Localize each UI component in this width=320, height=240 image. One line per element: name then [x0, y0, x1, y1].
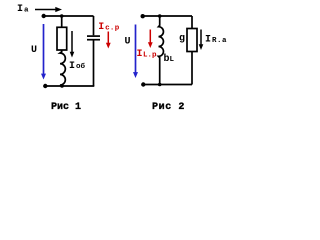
svg-text:U: U	[125, 37, 131, 48]
svg-text:I: I	[137, 49, 143, 60]
svg-text:a: a	[24, 7, 29, 15]
svg-text:L: L	[170, 56, 175, 64]
svg-text:U: U	[31, 45, 37, 56]
svg-text:c.p: c.p	[105, 24, 120, 32]
svg-text:об: об	[76, 62, 86, 71]
svg-text:I: I	[98, 22, 104, 33]
svg-text:I: I	[69, 61, 75, 72]
svg-text:R.a: R.a	[212, 37, 227, 45]
svg-text:g: g	[179, 34, 185, 45]
svg-text:L.p: L.p	[143, 52, 157, 60]
svg-text:Рис 2: Рис 2	[152, 102, 185, 113]
svg-text:Рис 1: Рис 1	[51, 102, 81, 113]
svg-text:I: I	[17, 4, 23, 15]
svg-text:I: I	[205, 35, 211, 46]
